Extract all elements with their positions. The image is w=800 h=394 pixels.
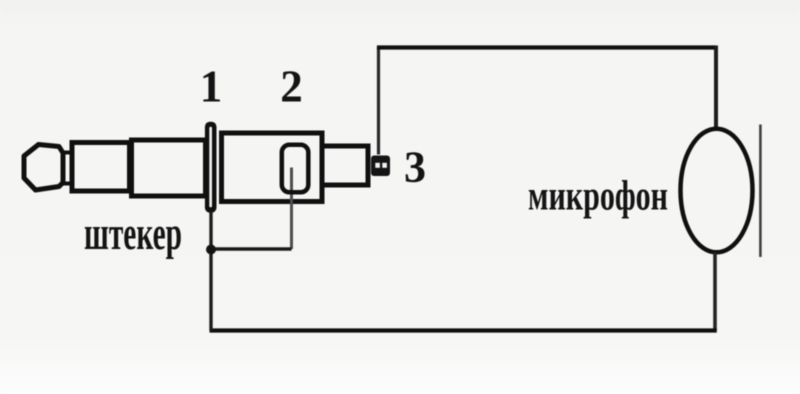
plug body <box>222 133 323 202</box>
contact 3 terminal block <box>371 156 390 177</box>
svg-text:штекер: штекер <box>84 207 182 260</box>
wire top horizontal <box>377 45 717 49</box>
wire right vertical down to microphone <box>714 46 718 129</box>
plug rear stub <box>322 146 368 185</box>
plug barrel segment A <box>72 143 130 192</box>
wire from ring contact 1 down <box>209 211 212 331</box>
microphone M1 (capsule ellipse) <box>681 129 753 253</box>
wire from contact 3 up <box>377 48 380 155</box>
wire bottom horizontal <box>210 328 717 332</box>
contact window 2 (rounded rectangle inside body) <box>282 145 309 193</box>
plug barrel segment B <box>132 140 206 196</box>
wire from microphone bottom <box>713 253 717 331</box>
junction node <box>206 245 216 255</box>
wire from contact 2 to junction <box>212 247 292 251</box>
ring contact 1 <box>205 122 217 213</box>
wire from contact 2 down <box>290 168 293 250</box>
svg-text:микрофон: микрофон <box>528 174 668 220</box>
microphone diaphragm line <box>759 125 762 258</box>
plug tip (3.5mm jack tip) <box>24 145 71 191</box>
svg-text:3: 3 <box>404 143 426 192</box>
svg-text:1: 1 <box>200 61 223 111</box>
svg-text:2: 2 <box>280 61 303 111</box>
